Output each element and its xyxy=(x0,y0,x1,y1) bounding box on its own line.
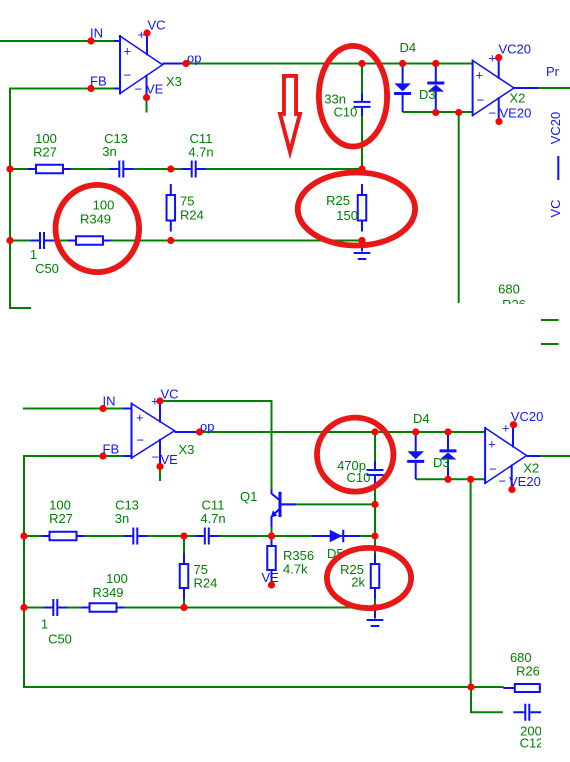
svg-text:VC20: VC20 xyxy=(499,42,532,57)
svg-text:75: 75 xyxy=(180,194,194,209)
svg-text:R349: R349 xyxy=(80,212,111,227)
svg-text:−: − xyxy=(124,68,132,83)
svg-text:Q1: Q1 xyxy=(240,489,257,504)
svg-text:IN: IN xyxy=(103,394,116,409)
svg-text:+: + xyxy=(489,51,497,66)
svg-text:VC20: VC20 xyxy=(548,112,563,145)
svg-text:100: 100 xyxy=(93,198,115,213)
svg-text:4.7n: 4.7n xyxy=(200,511,225,526)
svg-text:VE20: VE20 xyxy=(500,106,532,121)
svg-text:X2: X2 xyxy=(523,461,539,476)
svg-text:4.7k: 4.7k xyxy=(283,562,308,577)
svg-text:−: − xyxy=(135,82,143,97)
svg-text:R24: R24 xyxy=(194,576,218,591)
svg-text:3n: 3n xyxy=(102,144,116,159)
svg-text:VE: VE xyxy=(161,452,179,467)
svg-text:4.7n: 4.7n xyxy=(188,145,213,160)
svg-text:VC: VC xyxy=(548,199,563,217)
svg-text:op: op xyxy=(200,419,214,434)
svg-text:FB: FB xyxy=(103,442,120,457)
svg-text:FB: FB xyxy=(90,74,107,89)
svg-text:IN: IN xyxy=(90,26,103,41)
svg-text:+: + xyxy=(476,68,484,83)
svg-text:2k: 2k xyxy=(351,575,365,590)
svg-text:D4: D4 xyxy=(400,40,417,55)
svg-text:C12: C12 xyxy=(520,736,544,751)
svg-text:R27: R27 xyxy=(33,145,57,160)
svg-text:+: + xyxy=(136,410,144,425)
svg-text:+: + xyxy=(151,394,159,409)
svg-text:100: 100 xyxy=(106,571,128,586)
svg-text:−: − xyxy=(137,433,145,448)
svg-text:R24: R24 xyxy=(180,208,204,223)
svg-text:VC: VC xyxy=(161,387,179,402)
svg-text:−: − xyxy=(152,450,160,465)
svg-text:1: 1 xyxy=(30,247,37,262)
svg-text:+: + xyxy=(502,421,510,436)
svg-text:VC20: VC20 xyxy=(511,409,544,424)
svg-text:−: − xyxy=(489,461,497,476)
svg-text:X2: X2 xyxy=(510,91,526,106)
svg-text:X3: X3 xyxy=(179,442,195,457)
svg-text:X3: X3 xyxy=(166,74,182,89)
svg-text:+: + xyxy=(138,27,146,42)
svg-text:680: 680 xyxy=(498,282,520,297)
svg-text:C10: C10 xyxy=(334,105,358,120)
svg-text:−: − xyxy=(489,106,497,121)
svg-text:VE: VE xyxy=(262,570,280,585)
svg-text:R349: R349 xyxy=(92,585,123,600)
svg-text:VE20: VE20 xyxy=(509,474,541,489)
svg-text:+: + xyxy=(488,436,496,451)
svg-text:Pr: Pr xyxy=(546,64,560,79)
svg-text:VE: VE xyxy=(146,82,164,97)
svg-text:D3: D3 xyxy=(433,455,450,470)
svg-text:D4: D4 xyxy=(413,411,430,426)
svg-text:−: − xyxy=(477,93,485,108)
svg-text:150: 150 xyxy=(336,208,358,223)
svg-text:−: − xyxy=(499,474,507,489)
svg-text:R27: R27 xyxy=(49,511,73,526)
svg-text:3n: 3n xyxy=(115,511,129,526)
svg-text:C50: C50 xyxy=(35,261,59,276)
svg-text:1: 1 xyxy=(41,617,48,632)
svg-text:op: op xyxy=(187,51,201,66)
svg-text:D3: D3 xyxy=(419,87,436,102)
svg-text:C50: C50 xyxy=(48,632,72,647)
svg-text:C10: C10 xyxy=(347,470,371,485)
svg-text:R25: R25 xyxy=(326,193,350,208)
svg-text:VC: VC xyxy=(148,18,166,33)
svg-text:R26: R26 xyxy=(516,664,540,679)
svg-text:+: + xyxy=(124,44,132,59)
